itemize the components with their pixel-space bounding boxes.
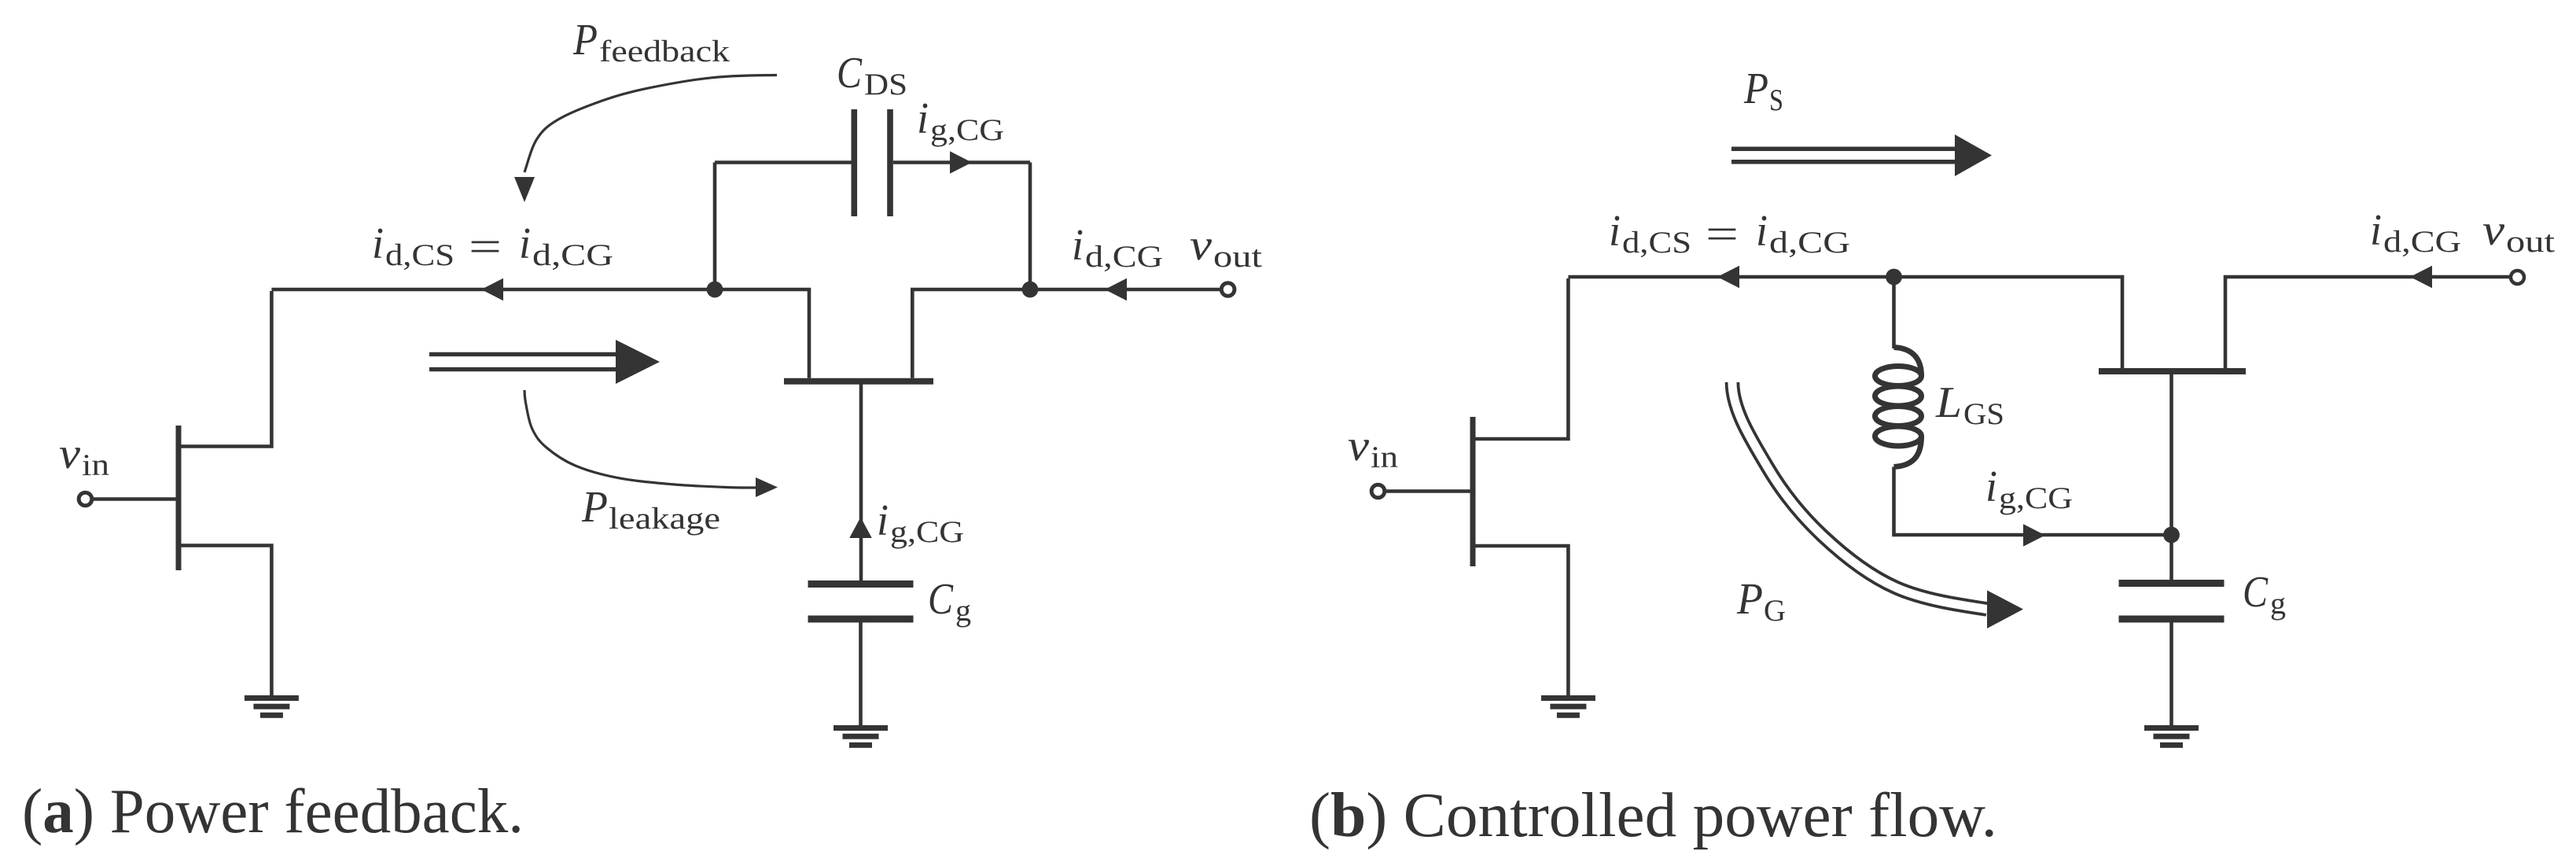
wire node A up-loop to C_DS left plate [715, 160, 852, 164]
node junction dot on main wire (fig b) [1886, 269, 1902, 286]
curved arrow P_feedback (fig a) [524, 76, 777, 173]
capacitor C_DS plates (fig a) [852, 109, 893, 216]
svg-text:id,CG: id,CG [2370, 206, 2461, 259]
wire M2 drain to v_out terminal [912, 289, 1220, 378]
svg-text:vout: vout [2482, 206, 2555, 259]
svg-text:id,CS=id,CG: id,CS=id,CG [372, 219, 613, 272]
wire M1 drain to M2 source (node A segment) [271, 289, 809, 378]
wire v_in to gate of M3 (fig b) [1386, 489, 1470, 493]
ground below C_g (fig b) [2144, 725, 2199, 748]
svg-text:vin: vin [1348, 422, 1398, 474]
svg-text:ig,CG: ig,CG [1985, 462, 2073, 515]
svg-text:ig,CG: ig,CG [917, 94, 1004, 147]
svg-text:(a) Power feedback.: (a) Power feedback. [22, 777, 524, 846]
transistor M4 common-gate (fig b): gate bar [2099, 368, 2246, 374]
transistor M1 drain lead [180, 291, 271, 447]
wire L_GS bottom to node C with i_g,CG [1894, 467, 2172, 536]
wire C_g bottom plate to ground (fig a) [859, 623, 863, 726]
inductor L_GS coil (fig b) [1875, 348, 1922, 467]
transistor M2 gate lead down to C_g [859, 383, 863, 580]
svg-text:vin: vin [59, 429, 109, 482]
wire right loop vertical into node B [1029, 163, 1032, 290]
transistor M2 common-gate (fig a): gate bar [784, 378, 933, 385]
current arrow i_d,CG near v_out (fig a), pointing left [1105, 278, 1127, 301]
svg-text:(b) Controlled power flow.: (b) Controlled power flow. [1309, 781, 1997, 850]
transistor M1 source lead [180, 546, 271, 696]
power flow double arrow (fig a) [429, 340, 660, 384]
wire v_in to gate of M1 [94, 497, 176, 501]
ground below M1 source (fig a) [245, 695, 299, 718]
terminal v_in (fig b) [1371, 485, 1385, 498]
current arrow i_d,CG near v_out (fig b), pointing left [2410, 266, 2432, 289]
power flow double arrow P_S (fig b) [1731, 135, 1992, 176]
terminal v_in (fig a) [79, 492, 92, 506]
svg-text:Pfeedback: Pfeedback [572, 16, 730, 68]
capacitor C_g plates (fig b) [2119, 580, 2225, 623]
terminal v_out (fig b) [2511, 271, 2524, 284]
svg-text:ig,CG: ig,CG [877, 496, 964, 549]
svg-text:Pleakage: Pleakage [581, 483, 720, 536]
node B junction dot (fig a) [1022, 282, 1039, 298]
node C junction dot on gate lead (fig b) [2163, 527, 2180, 544]
current arrow i_g,CG upward on gate lead (fig a) [849, 518, 872, 539]
wire C_DS right plate to node B loop [893, 160, 1030, 164]
svg-text:CDS: CDS [837, 49, 907, 101]
transistor M1 common-source (fig a): gate bar [176, 426, 182, 570]
power flow double curved arrow P_G (fig b) [1732, 382, 2023, 628]
wire C_g bottom plate to ground (fig b) [2169, 623, 2173, 726]
ground below C_g (fig a) [834, 725, 888, 748]
main wire M3 drain to M4 source (fig b) [1568, 277, 2122, 368]
svg-text:Cg: Cg [2243, 568, 2286, 621]
ground below M3 source (fig b) [1541, 695, 1595, 718]
terminal v_out (fig a) [1221, 283, 1235, 297]
transistor M3 source lead [1474, 546, 1568, 695]
svg-text:PG: PG [1736, 575, 1786, 628]
svg-text:LGS: LGS [1935, 378, 2004, 431]
current arrow i_g,CG (fig b), pointing right [2023, 524, 2045, 547]
svg-text:id,CG: id,CG [1072, 221, 1163, 274]
capacitor C_g plates (fig a) [808, 580, 914, 623]
curved arrow P_leakage (fig a) [524, 390, 756, 488]
transistor M4 gate lead down to C_g (fig b) [2169, 373, 2173, 580]
svg-text:PS: PS [1743, 64, 1783, 117]
node A junction dot (fig a) [707, 282, 723, 298]
svg-text:id,CS=id,CG: id,CS=id,CG [1609, 207, 1850, 260]
wire left loop vertical into node A [713, 163, 717, 290]
transistor M3 common-source (fig b): gate bar [1470, 417, 1476, 566]
svg-text:Cg: Cg [928, 575, 971, 628]
svg-text:vout: vout [1190, 221, 1262, 274]
current arrow i_g,CG on C_DS loop, pointing right [950, 151, 972, 174]
wire M4 drain to v_out terminal (fig b) [2225, 277, 2509, 368]
wire node to L_GS top [1892, 277, 1896, 348]
current arrow i_d on main wire (fig b), pointing left [1717, 266, 1739, 289]
transistor M3 drain lead [1474, 278, 1568, 439]
current arrow i_d on main wire (fig a), pointing left [481, 278, 503, 301]
